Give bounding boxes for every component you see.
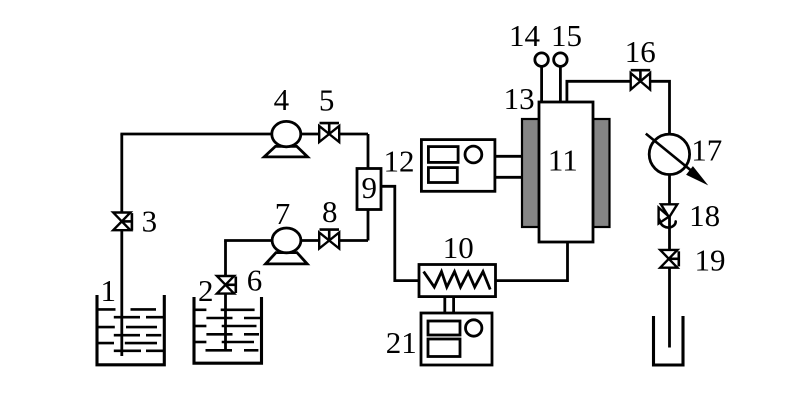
valve 5 (horizontal) — [319, 123, 339, 142]
svg-text:1: 1 — [101, 273, 117, 308]
controller 12 box — [421, 140, 495, 192]
wire corner to pump 7 inlet — [224, 239, 272, 242]
controller 21 box — [421, 313, 492, 365]
svg-text:6: 6 — [247, 262, 263, 297]
flow meter 17 — [646, 134, 708, 186]
wire heater 10 outlet to reactor 11 bottom — [496, 242, 568, 281]
gauge 15 stem — [559, 66, 562, 102]
svg-text:21: 21 — [386, 325, 417, 360]
valve 18 (regulating) — [659, 204, 678, 227]
svg-text:5: 5 — [319, 82, 335, 117]
wire pump 4 outlet through valve 5 to corner — [301, 133, 369, 136]
gauge 14 stem — [540, 66, 543, 102]
mixer 9 box — [357, 169, 381, 210]
svg-text:8: 8 — [322, 194, 338, 229]
heater 10 element zigzag — [424, 272, 491, 290]
svg-text:18: 18 — [689, 198, 720, 233]
wire tank2 dip tube up through valve 6 to corner — [224, 241, 227, 351]
wire reactor outlet up and right through valve 16 to flow meter 17 — [567, 81, 670, 134]
pump 4 — [264, 121, 307, 156]
svg-text:19: 19 — [695, 243, 726, 278]
pump 7 — [266, 228, 308, 264]
wire corner down into mixer 9 top — [367, 134, 370, 169]
tank 2 beaker — [194, 297, 262, 363]
wire corner to pump 4 inlet (horizontal) — [120, 133, 272, 136]
jacket 13 left gray bar — [522, 119, 539, 227]
svg-text:10: 10 — [443, 230, 474, 265]
wire mixer 9 right side down to heater 10 inlet — [381, 186, 419, 280]
svg-text:14: 14 — [509, 18, 541, 53]
gauge 14 bulb — [535, 53, 549, 67]
svg-text:2: 2 — [198, 273, 214, 308]
tank 2 liquid hatching — [194, 310, 262, 351]
wire heater 10 to controller 21 (double lead) — [443, 297, 446, 313]
tank 1 beaker — [97, 295, 164, 365]
svg-text:12: 12 — [384, 144, 415, 179]
valve 3 (vertical, on tank1 line) — [113, 213, 132, 231]
valve 19 (vertical) — [660, 250, 679, 268]
wire pump 7 outlet through valve 8 to corner — [301, 239, 368, 242]
wire tank1 dip tube up to corner (vertical, through valve 3) — [120, 134, 123, 356]
wire flow meter 17 down through valves 18 and 19 into receiver — [668, 174, 671, 347]
svg-text:15: 15 — [551, 18, 582, 53]
receiver tube (bottom right) — [654, 316, 684, 365]
svg-text:9: 9 — [361, 170, 377, 205]
wire controller 12 to jacket (upper lead) — [495, 155, 523, 158]
reactor 11 body — [539, 102, 593, 242]
wire controller 12 to jacket (lower lead) — [495, 176, 523, 179]
heater 10 box — [419, 265, 496, 297]
svg-text:16: 16 — [625, 34, 656, 69]
svg-text:4: 4 — [274, 82, 290, 117]
svg-text:13: 13 — [504, 81, 535, 116]
svg-text:11: 11 — [548, 142, 578, 177]
svg-text:17: 17 — [691, 133, 722, 168]
svg-text:7: 7 — [275, 196, 291, 231]
valve 8 (horizontal) — [319, 230, 339, 249]
jacket 13 right gray bar — [593, 119, 610, 227]
valve 6 (vertical, on tank2 line) — [217, 276, 236, 294]
svg-text:3: 3 — [142, 203, 158, 238]
tank 1 liquid hatching — [97, 309, 164, 350]
gauge 15 bulb — [554, 53, 568, 67]
valve 16 (horizontal) — [631, 70, 651, 89]
wire corner up into mixer 9 bottom — [367, 210, 370, 241]
